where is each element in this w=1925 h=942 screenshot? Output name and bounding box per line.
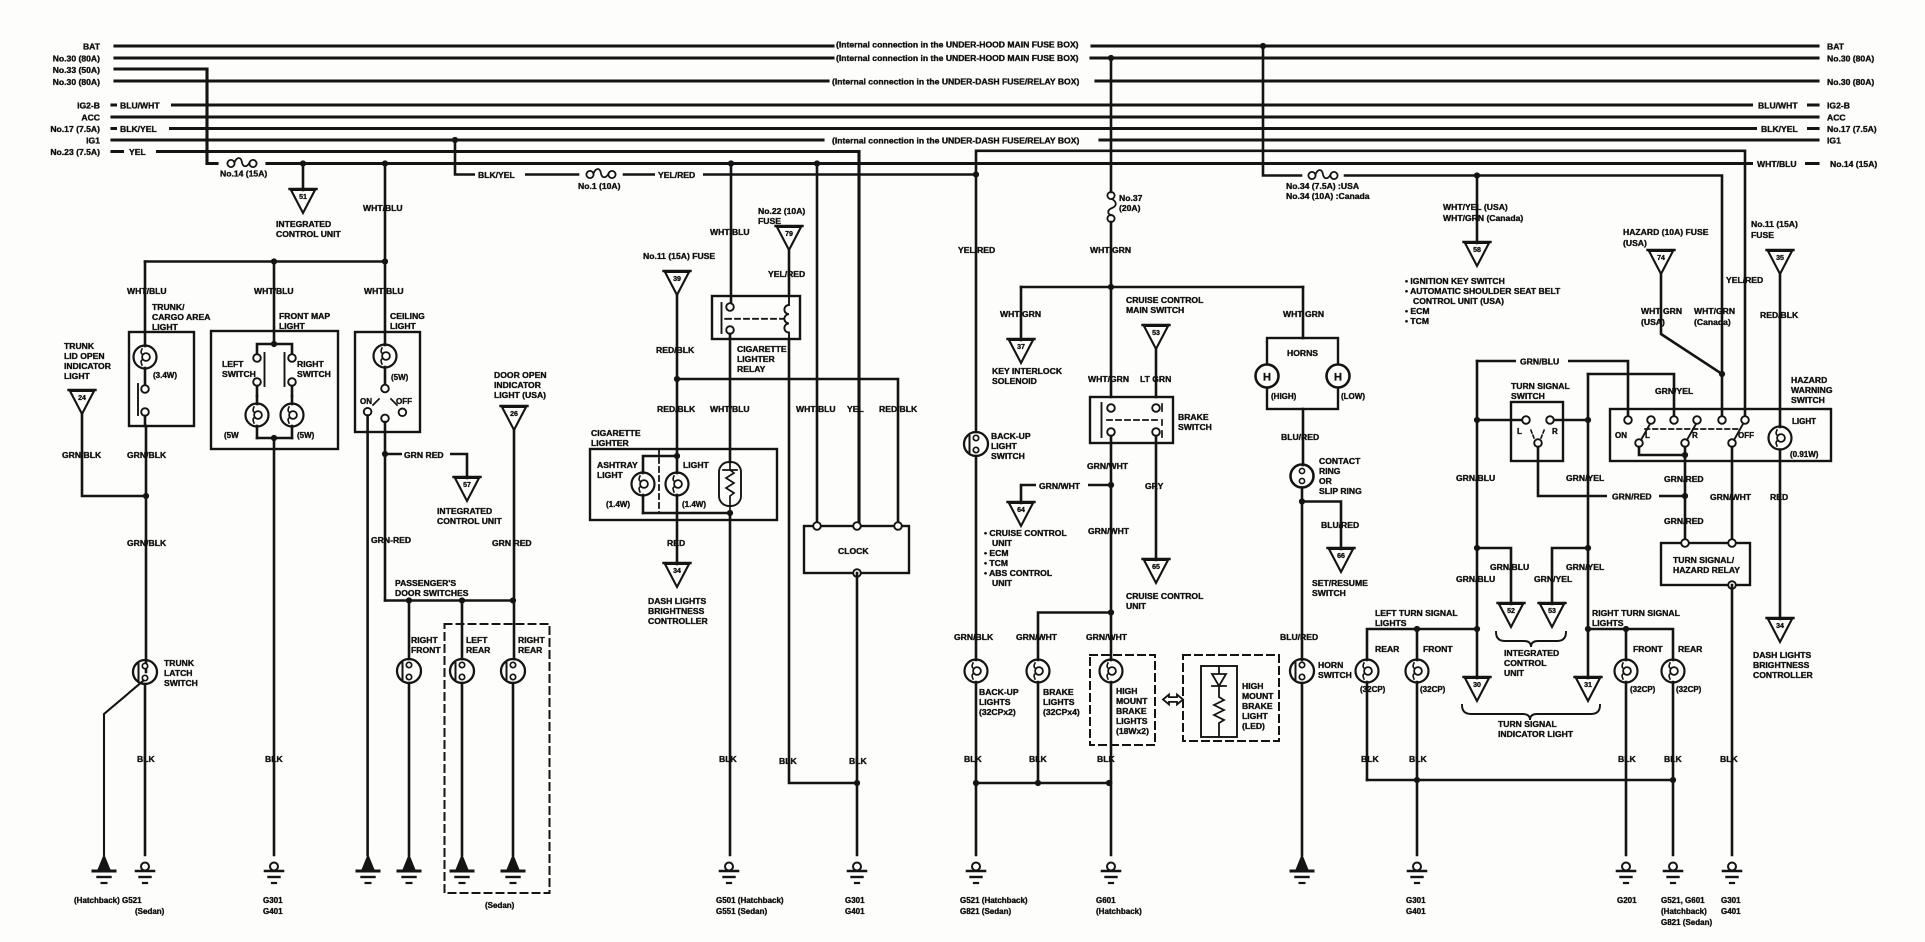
svg-text:UNIT: UNIT <box>1504 668 1525 678</box>
node fuse14 out to ceiling <box>382 160 388 166</box>
svg-text:(20A): (20A) <box>1119 203 1141 213</box>
svg-text:No.30 (80A): No.30 (80A) <box>1827 77 1874 87</box>
label BLK brake <box>1029 754 1047 764</box>
svg-text:No.30 (80A): No.30 (80A) <box>53 77 100 87</box>
svg-text:65: 65 <box>1152 564 1160 571</box>
svg-text:TRUNK/: TRUNK/ <box>152 302 185 312</box>
svg-text:CONTROL: CONTROL <box>1504 658 1547 668</box>
label YEL/RED backup <box>958 245 995 255</box>
label 32CP left rear <box>1360 685 1386 694</box>
node YEL/RED jog junction <box>973 171 979 177</box>
svg-text:G551 (Sedan): G551 (Sedan) <box>716 907 767 916</box>
label GRN/BLU mid <box>1456 473 1495 483</box>
svg-text:LIGHTS: LIGHTS <box>979 697 1011 707</box>
wire YEL/RED fuse22 to relay <box>788 250 791 296</box>
wire No.23 YEL bus <box>112 152 859 527</box>
label YEL left <box>124 146 156 157</box>
node right front tap turn <box>1623 626 1629 632</box>
svg-text:BACK-UP: BACK-UP <box>979 687 1019 697</box>
svg-text:YEL/RED: YEL/RED <box>1726 275 1763 285</box>
label ignition list <box>1405 276 1561 326</box>
svg-text:BAT: BAT <box>1827 42 1845 52</box>
svg-text:BAT: BAT <box>83 42 101 52</box>
wire relay coil out BLK <box>789 339 857 783</box>
label left turn signal lights <box>1375 608 1458 628</box>
svg-text:37: 37 <box>1017 344 1025 351</box>
ground left rear <box>451 855 473 883</box>
wire left front drop <box>1416 629 1419 660</box>
svg-text:YEL/RED: YEL/RED <box>958 245 995 255</box>
svg-text:34: 34 <box>673 568 681 575</box>
svg-text:74: 74 <box>1657 255 1665 262</box>
connector triangle 37 <box>1008 339 1035 363</box>
svg-text:SWITCH: SWITCH <box>297 369 331 379</box>
svg-text:(Internal connection in the UN: (Internal connection in the UNDER-DASH F… <box>832 77 1079 87</box>
svg-text:G201: G201 <box>1617 896 1637 905</box>
svg-text:GRN-RED: GRN-RED <box>371 535 411 545</box>
svg-text:• ECM: • ECM <box>1405 306 1430 316</box>
fuse No.34 <box>1308 170 1337 179</box>
svg-text:RED/BLK: RED/BLK <box>656 345 695 355</box>
label turn signal switch <box>1511 381 1570 401</box>
svg-text:L: L <box>1517 427 1522 436</box>
label high mount LED <box>1242 681 1274 731</box>
label RED/BLK right <box>1760 310 1799 320</box>
connector triangle 31 <box>1575 677 1602 701</box>
svg-text:MOUNT: MOUNT <box>1116 696 1148 706</box>
label internal connection dash 1 <box>832 77 1079 87</box>
svg-text:R: R <box>1692 431 1698 440</box>
svg-text:ACC: ACC <box>1827 113 1846 123</box>
svg-text:TURN SIGNAL: TURN SIGNAL <box>1498 719 1557 729</box>
label GRN/BLK mid <box>127 450 167 460</box>
label BLK high mount <box>1097 754 1115 764</box>
svg-text:SWITCH: SWITCH <box>222 369 256 379</box>
svg-text:CEILING: CEILING <box>390 311 425 321</box>
svg-text:FUSE: FUSE <box>758 216 781 226</box>
label light <box>683 460 710 470</box>
clock box <box>804 526 909 573</box>
svg-text:G521 (Hatchback): G521 (Hatchback) <box>960 896 1028 905</box>
label No.22 fuse <box>758 206 805 226</box>
relay switch contacts <box>722 303 734 334</box>
svg-text:(32CP): (32CP) <box>1630 685 1656 694</box>
svg-text:No.34 (10A) :Canada: No.34 (10A) :Canada <box>1286 191 1370 201</box>
svg-text:UNIT: UNIT <box>992 538 1013 548</box>
svg-text:79: 79 <box>785 231 793 238</box>
switch map right <box>285 353 296 396</box>
wire GRN/WHT brake out <box>1110 436 1113 613</box>
connector triangle 51 <box>290 189 317 213</box>
wire GRN/YEL right column <box>1587 420 1590 629</box>
svg-text:CONTROL UNIT (USA): CONTROL UNIT (USA) <box>1413 296 1504 306</box>
svg-text:(5W: (5W <box>224 431 239 440</box>
node WHT/BLU relay tap <box>728 160 734 166</box>
node clock ground join <box>854 780 860 786</box>
svg-text:WHT/GRN: WHT/GRN <box>1090 245 1131 255</box>
svg-text:RING: RING <box>1319 466 1341 476</box>
wire RED/BLK from fuse 39 <box>676 295 679 453</box>
wire YEL/RED jog up segment <box>976 151 1745 419</box>
svg-text:(HIGH): (HIGH) <box>1271 392 1297 401</box>
svg-text:SWITCH: SWITCH <box>991 451 1025 461</box>
relay cigarette lighter box <box>712 296 800 339</box>
svg-text:OR: OR <box>1319 476 1333 486</box>
label BLK backup <box>964 754 982 764</box>
switch back-up light <box>964 432 988 456</box>
fuse No.37 vertical <box>1107 192 1115 222</box>
svg-text:GRN/WHT: GRN/WHT <box>1016 632 1058 642</box>
label GRN/BLK left <box>62 450 102 460</box>
svg-text:BLK: BLK <box>1618 754 1636 764</box>
wire triangle 30 drop <box>1476 629 1479 678</box>
equivalence arrow <box>1163 695 1183 705</box>
svg-text:SWITCH: SWITCH <box>1791 395 1825 405</box>
svg-text:GRN/BLK: GRN/BLK <box>127 538 167 548</box>
svg-text:OFF: OFF <box>396 397 412 406</box>
connector triangle 35 fuse <box>1767 250 1794 274</box>
svg-text:DOOR OPEN: DOOR OPEN <box>494 370 547 380</box>
label GRN/WHT horiz <box>1036 479 1088 491</box>
fuse No.14 (15A) <box>227 158 256 167</box>
label 1.4W light <box>682 500 706 509</box>
svg-text:INDICATOR: INDICATOR <box>494 380 542 390</box>
label horn switch <box>1318 660 1352 680</box>
svg-text:No.14 (15A): No.14 (15A) <box>220 169 267 179</box>
switch trunk latch <box>104 660 157 855</box>
ground right front <box>398 855 420 883</box>
svg-text:LIGHT: LIGHT <box>597 470 624 480</box>
svg-text:BLK/YEL: BLK/YEL <box>1761 124 1798 134</box>
svg-text:HAZARD RELAY: HAZARD RELAY <box>1673 565 1740 575</box>
svg-text:G821 (Sedan): G821 (Sedan) <box>1661 918 1712 927</box>
svg-text:LEFT: LEFT <box>222 359 244 369</box>
wire BAT bus <box>115 44 1818 47</box>
node BAT branch to No.34 <box>1260 43 1266 49</box>
svg-text:BLK: BLK <box>1409 754 1427 764</box>
label WHT/BLU map <box>254 286 294 296</box>
label BLK/YEL left <box>117 123 169 134</box>
label light hazard <box>1790 417 1819 459</box>
svg-text:LIGHTS: LIGHTS <box>1043 697 1075 707</box>
label high low <box>1271 392 1365 401</box>
label left rear <box>466 635 491 655</box>
bulb ashtray light <box>632 473 655 514</box>
label BLK lighter <box>719 754 737 764</box>
svg-text:GRN/WHT: GRN/WHT <box>1039 481 1081 491</box>
svg-text:UNIT: UNIT <box>992 578 1013 588</box>
label YEL/RED right <box>1726 275 1763 285</box>
node brake light split <box>1108 609 1114 615</box>
brake switch box <box>1090 397 1173 443</box>
label ceiling light <box>390 311 425 331</box>
switch horn <box>1290 659 1314 855</box>
wire L contact line <box>1477 361 1526 420</box>
connector triangle 65 <box>1143 559 1170 583</box>
label WHT/BLU ceiling top <box>363 203 403 213</box>
node brake gnd <box>1035 780 1041 786</box>
connector triangle 34 right <box>1767 618 1794 642</box>
svg-text:BLU/WHT: BLU/WHT <box>1758 101 1798 111</box>
brace icu <box>1496 632 1566 647</box>
ground ceiling on <box>357 855 379 883</box>
LED diode symbol <box>1212 666 1226 686</box>
svg-text:RED/BLK: RED/BLK <box>1760 310 1799 320</box>
svg-text:SOLENOID: SOLENOID <box>992 376 1037 386</box>
ground right rear <box>502 855 524 883</box>
node map bottom <box>271 435 277 441</box>
wire drop to integrated control unit <box>302 164 305 191</box>
svg-text:CONTROL UNIT: CONTROL UNIT <box>276 229 342 239</box>
wire door switch bus <box>385 599 513 602</box>
connector triangle 57 <box>454 477 481 501</box>
wire hazard fuse diagonal <box>1661 274 1722 374</box>
svg-text:BLU/RED: BLU/RED <box>1321 520 1359 530</box>
label contact ring <box>1319 456 1362 496</box>
svg-text:FRONT: FRONT <box>1633 644 1663 654</box>
relay dashed link <box>726 318 783 320</box>
svg-text:WHT/BLU: WHT/BLU <box>364 286 404 296</box>
svg-text:CONTROLLER: CONTROLLER <box>648 616 708 626</box>
label GRN RED tap <box>402 448 450 460</box>
svg-text:39: 39 <box>673 276 681 283</box>
svg-text:MAIN SWITCH: MAIN SWITCH <box>1126 305 1184 315</box>
label RED <box>667 538 685 548</box>
wire GRY cruise <box>1155 436 1158 560</box>
svg-text:REAR: REAR <box>1678 644 1703 654</box>
label high mount brake lights <box>1116 686 1149 736</box>
svg-text:(Hatchback): (Hatchback) <box>1096 907 1142 916</box>
svg-text:BLK: BLK <box>265 754 283 764</box>
wire turn common GRN/RED <box>1538 447 1685 496</box>
label YEL clock <box>847 404 864 414</box>
svg-text:• ABS CONTROL: • ABS CONTROL <box>984 568 1052 578</box>
svg-text:(18Wx2): (18Wx2) <box>1116 726 1149 736</box>
switch trunk cargo <box>138 368 149 426</box>
label front left <box>1423 644 1453 654</box>
svg-text:DASH LIGHTS: DASH LIGHTS <box>1753 650 1812 660</box>
wire map inner bus <box>257 344 292 354</box>
svg-text:No.34 (7.5A) :USA: No.34 (7.5A) :USA <box>1286 181 1359 191</box>
svg-text:• IGNITION KEY SWITCH: • IGNITION KEY SWITCH <box>1405 276 1505 286</box>
switch ceiling on-off <box>364 385 406 423</box>
node L line <box>1474 417 1480 423</box>
svg-text:INDICATOR LIGHT: INDICATOR LIGHT <box>1498 729 1574 739</box>
hazard switch box <box>1610 409 1831 461</box>
svg-text:WHT/BLU: WHT/BLU <box>1757 159 1797 169</box>
label GRY <box>1145 481 1164 491</box>
label internal connection dash 2 <box>832 136 1079 146</box>
svg-text:BLU/RED: BLU/RED <box>1281 432 1319 442</box>
svg-text:GRN/YEL: GRN/YEL <box>1655 386 1693 396</box>
svg-text:LT GRN: LT GRN <box>1140 374 1171 384</box>
label WHT/GRN Canada <box>1694 306 1735 327</box>
wire WHT/BLU ceiling feed <box>384 164 387 333</box>
brake switch right contacts <box>1152 404 1162 437</box>
connector triangle 66 <box>1328 548 1355 572</box>
svg-text:53: 53 <box>1548 608 1556 615</box>
svg-text:52: 52 <box>1507 608 1515 615</box>
svg-text:LIGHTER: LIGHTER <box>591 438 630 448</box>
svg-text:No.17 (7.5A): No.17 (7.5A) <box>1827 124 1877 134</box>
label back-up lights <box>979 687 1019 717</box>
svg-text:IG1: IG1 <box>1827 136 1841 146</box>
connector triangle 52 <box>1498 603 1525 627</box>
wire BLK/YEL to fuse No.1 to YEL/RED <box>455 140 976 175</box>
svg-text:MOUNT: MOUNT <box>1242 691 1274 701</box>
ground sedan trunk <box>136 863 154 884</box>
bulb map right 5W <box>281 396 304 438</box>
wire WHT/BLU trunk light drop <box>144 262 147 333</box>
svg-text:WHT/GRN (Canada): WHT/GRN (Canada) <box>1443 213 1523 223</box>
label turn signal hazard relay <box>1673 555 1740 575</box>
node GRN/YEL split <box>1585 545 1591 551</box>
label GRN/BLK backup <box>954 632 994 642</box>
svg-text:No.30 (80A): No.30 (80A) <box>1827 54 1874 64</box>
svg-text:ON: ON <box>360 397 372 406</box>
label back-up light switch <box>991 431 1031 461</box>
wire WHT/YEL to ignition list <box>1476 176 1479 244</box>
label WHT/BLU trunk <box>127 286 167 296</box>
node backup gnd <box>973 780 979 786</box>
label WHT/GRN key interlock <box>1000 309 1041 319</box>
hazard contacts bottom <box>1635 439 1736 447</box>
label WHT/BLU col <box>710 404 750 414</box>
svg-text:WHT GRN: WHT GRN <box>1641 306 1682 316</box>
svg-text:BLK: BLK <box>849 756 867 766</box>
svg-text:LIGHTS: LIGHTS <box>1375 618 1407 628</box>
svg-text:RED/BLK: RED/BLK <box>657 404 696 414</box>
wire LT GRN cruise main <box>1155 349 1158 397</box>
bulb trunk cargo light <box>134 332 157 369</box>
node set resume tap <box>1299 498 1305 504</box>
label ashtray light <box>597 460 638 480</box>
connector triangle 74 fuse <box>1648 250 1675 274</box>
label cigarette lighter relay <box>737 344 787 374</box>
svg-text:24: 24 <box>78 395 86 402</box>
label GRN/RED common <box>1607 490 1659 502</box>
svg-text:G401: G401 <box>845 907 865 916</box>
svg-text:34: 34 <box>1776 623 1784 630</box>
svg-text:• TCM: • TCM <box>984 558 1008 568</box>
svg-text:No.33 (50A): No.33 (50A) <box>53 65 100 75</box>
label BLK relay right <box>1720 754 1738 764</box>
svg-text:No.11 (15A): No.11 (15A) <box>1751 219 1798 229</box>
svg-text:WHT/GRN: WHT/GRN <box>1000 309 1041 319</box>
label door open indicator light <box>494 370 547 400</box>
label ground backup <box>960 896 1028 916</box>
wire lighter illumination RED <box>676 513 679 564</box>
label right turn signal lights <box>1592 608 1680 628</box>
svg-text:58: 58 <box>1473 247 1481 254</box>
label BLK left front <box>1409 754 1427 764</box>
svg-text:CONTACT: CONTACT <box>1319 456 1361 466</box>
label GRN/BLK lower <box>127 538 167 548</box>
label GRN/RED hazard lower <box>1664 516 1704 526</box>
label rear left <box>1375 644 1400 654</box>
svg-text:IG2-B: IG2-B <box>1827 101 1850 111</box>
svg-text:(32CP): (32CP) <box>1360 685 1386 694</box>
node fuse14 out to ICU <box>300 160 306 166</box>
svg-text:TURN SIGNAL: TURN SIGNAL <box>1511 381 1570 391</box>
svg-text:(32CP): (32CP) <box>1676 685 1702 694</box>
svg-text:RIGHT: RIGHT <box>518 635 545 645</box>
svg-text:IG1: IG1 <box>86 136 100 146</box>
label integrated control unit right <box>1504 648 1559 678</box>
wire to set resume <box>1302 502 1341 550</box>
bulb hazard light <box>1769 427 1792 450</box>
svg-text:H: H <box>1263 372 1271 384</box>
label GRN/WHT below brake <box>1087 461 1129 471</box>
svg-text:(Internal connection in the UN: (Internal connection in the UNDER-HOOD M… <box>836 53 1079 63</box>
label GRN/WHT brake lights <box>1016 632 1058 642</box>
node lighter feed <box>674 453 680 459</box>
svg-text:BLK: BLK <box>1029 754 1047 764</box>
svg-text:FRONT MAP: FRONT MAP <box>279 311 330 321</box>
turn switch arm dashes <box>1530 428 1545 438</box>
label sedan <box>485 901 515 910</box>
hazard contacts top <box>1624 416 1749 424</box>
relay coil <box>784 296 789 339</box>
switch door left rear <box>450 659 474 855</box>
connector triangle 79 fuse <box>776 226 803 250</box>
wire GRN/BLU left column <box>1476 420 1479 629</box>
wire right lights feed <box>1588 629 1673 660</box>
label BLU/RED horn switch <box>1280 632 1318 642</box>
bulb map left 5W <box>246 396 269 438</box>
svg-text:INDICATOR: INDICATOR <box>64 361 112 371</box>
svg-text:35: 35 <box>1776 255 1784 262</box>
wire lighter BLK down <box>729 513 732 855</box>
svg-text:G301: G301 <box>1721 896 1741 905</box>
label ON L R OFF <box>1615 431 1754 440</box>
svg-text:H: H <box>1334 372 1342 384</box>
label 32CP left front <box>1420 685 1446 694</box>
svg-text:FUSE: FUSE <box>1751 230 1774 240</box>
label 32CP right front <box>1630 685 1656 694</box>
node left lights junction <box>1474 626 1480 632</box>
label 3.4W <box>153 371 177 380</box>
wire No.30 (80A) second bus <box>115 79 1818 82</box>
svg-text:LIGHT: LIGHT <box>1792 417 1816 426</box>
svg-text:DASH LIGHTS: DASH LIGHTS <box>648 596 707 606</box>
svg-text:R: R <box>1552 427 1558 436</box>
svg-text:BRAKE: BRAKE <box>1178 412 1209 422</box>
ground G521 G601 <box>1664 863 1682 884</box>
svg-text:GRN RED: GRN RED <box>404 450 444 460</box>
cigarette lighter element <box>719 462 741 513</box>
LED dashed box <box>1183 655 1279 741</box>
svg-text:BLK: BLK <box>964 754 982 764</box>
svg-text:• TCM: • TCM <box>1405 316 1429 326</box>
ground relay G301 <box>1723 863 1741 884</box>
svg-text:BLK/YEL: BLK/YEL <box>478 170 515 180</box>
connector triangle 24 <box>69 390 96 414</box>
svg-text:(Hatchback) G521: (Hatchback) G521 <box>74 896 142 905</box>
label cruise control unit <box>1126 591 1203 611</box>
svg-text:KEY INTERLOCK: KEY INTERLOCK <box>992 366 1063 376</box>
label 1.4W ashtray <box>606 500 630 509</box>
svg-text:G301: G301 <box>845 896 865 905</box>
svg-text:LIGHTS: LIGHTS <box>1592 618 1624 628</box>
wire ACC bus <box>112 115 1818 118</box>
wire WHT/BLU to relay <box>730 164 733 308</box>
svg-text:SWITCH: SWITCH <box>1511 391 1545 401</box>
label internal connection hood 2 <box>836 53 1079 63</box>
svg-text:YEL/RED: YEL/RED <box>658 170 695 180</box>
LED inner box <box>1201 666 1237 737</box>
label LT GRN <box>1140 374 1171 384</box>
